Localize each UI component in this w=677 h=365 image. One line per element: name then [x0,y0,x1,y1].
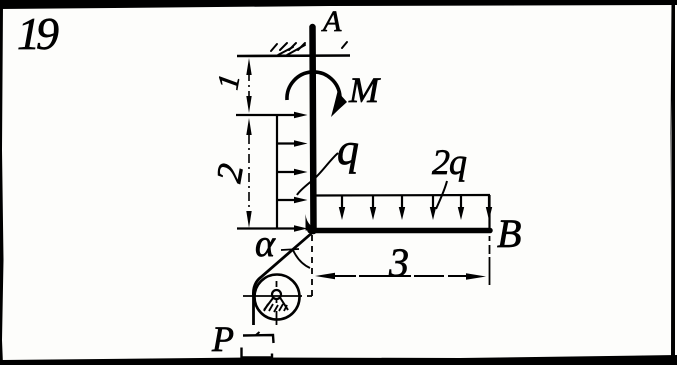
dimension 3 line [330,275,470,277]
distributed load 2q top line [313,194,490,197]
load 2q right boundary [488,195,490,228]
support hatching [271,42,347,55]
load q arrow 2 [277,140,308,146]
svg-text:P: P [211,319,234,359]
pulley support triangle [264,298,288,311]
pulley vertical centerline [276,281,278,325]
pulley axle [272,290,281,299]
distributed load q left boundary [276,115,278,229]
dimension 3 extension dashed at corner [311,235,313,297]
frame border left [0,0,4,365]
pulley wheel [255,275,300,320]
svg-text:B: B [497,211,521,256]
frame border bottom [2,355,677,365]
alpha tick [281,249,299,250]
dimension 2 line [248,135,250,210]
load q arrow 1 [236,112,308,118]
svg-text:3: 3 [388,240,409,285]
leader line for q [297,153,338,195]
beam corner fillet [306,214,323,231]
force P bottom bracket [242,348,273,358]
force P top hook [243,335,274,343]
cable from corner over pulley [253,232,313,325]
svg-text:A: A [321,5,342,38]
moment M arrowhead [331,92,347,118]
load 2q arrow 3 [399,196,405,220]
load 2q arrow 5 [458,196,464,220]
svg-text:α: α [255,223,276,265]
svg-text:q: q [337,125,359,174]
load 2q arrow 1 [339,196,345,220]
pulley support hatching [264,304,287,312]
pulley horizontal centerline [243,295,312,297]
load q arrow 4 [277,197,308,203]
moment M arc [287,72,340,100]
svg-text:2q: 2q [432,142,467,182]
beam AB vertical segment [313,27,314,231]
dimension 3 extension at B [489,236,491,285]
load 2q arrow 6 [486,196,492,220]
svg-text:19: 19 [17,8,59,59]
load 2q arrow 2 [370,196,376,220]
angle alpha arc [293,250,310,268]
svg-text:M: M [348,70,381,110]
load q arrow 5 [237,225,308,231]
dimension 1 line [248,74,250,98]
load q arrow 3 [277,169,308,175]
leader line for 2q [436,181,447,209]
load 2q arrow 4 [430,196,436,220]
fixed support surface line at A [237,54,350,57]
frame border right [670,3,675,362]
frame border top [0,0,677,9]
beam AB horizontal segment [310,228,490,234]
